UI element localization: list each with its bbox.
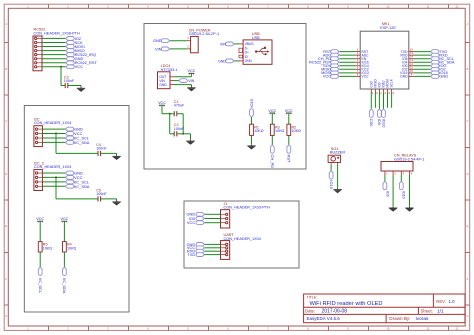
svg-text:E: E [467, 224, 469, 228]
svg-text:VCC: VCC [323, 74, 331, 79]
svg-text:ESP-12E: ESP-12E [380, 26, 396, 30]
svg-text:VCC: VCC [362, 75, 370, 79]
svg-text:D: D [5, 172, 7, 176]
svg-text:GND: GND [439, 74, 448, 79]
svg-text:CON_HEADER_1X04: CON_HEADER_1X04 [34, 121, 71, 125]
svg-text:VCC: VCC [158, 101, 166, 105]
svg-text:C: C [5, 119, 7, 123]
svg-text:REV:: REV: [436, 299, 446, 304]
svg-text:100nF: 100nF [64, 79, 75, 83]
svg-text:GSD19-2.54-4P-1: GSD19-2.54-4P-1 [394, 157, 424, 161]
svg-text:2017-06-08: 2017-06-08 [322, 308, 348, 314]
svg-text:Sheet:: Sheet: [421, 308, 433, 313]
svg-text:10KΩ: 10KΩ [43, 246, 53, 250]
svg-text:100nF: 100nF [174, 127, 185, 131]
svg-text:10KΩ: 10KΩ [254, 129, 264, 133]
svg-text:G: G [5, 314, 7, 318]
svg-text:B: B [467, 67, 469, 71]
svg-text:100nF: 100nF [96, 192, 107, 196]
svg-text:VCC: VCC [187, 220, 195, 225]
svg-text:IIC_SDA: IIC_SDA [74, 184, 90, 189]
svg-text:VCC: VCC [285, 109, 293, 113]
svg-text:VIN: VIN [155, 46, 162, 51]
svg-text:IIC_SDA: IIC_SDA [62, 278, 67, 294]
svg-text:Drawn By:: Drawn By: [389, 316, 410, 321]
svg-text:VCC: VCC [36, 217, 44, 221]
svg-text:IIC_SDA: IIC_SDA [74, 140, 90, 145]
svg-text:TITLE:: TITLE: [307, 295, 318, 299]
svg-text:IO10: IO10 [381, 119, 386, 128]
svg-text:IO10: IO10 [402, 191, 406, 199]
svg-text:GND: GND [159, 83, 167, 87]
svg-text:TXD: TXD [187, 252, 195, 257]
svg-text:C: C [467, 119, 469, 123]
svg-text:IO15: IO15 [329, 180, 334, 189]
svg-text:1.0: 1.0 [449, 299, 456, 304]
svg-text:VIN: VIN [188, 79, 194, 83]
svg-text:VCC: VCC [188, 69, 196, 73]
svg-text:1/1: 1/1 [437, 308, 444, 314]
svg-text:G: G [466, 314, 468, 318]
svg-text:A: A [467, 22, 469, 26]
svg-text:10KΩ: 10KΩ [275, 129, 285, 133]
svg-text:RST: RST [287, 155, 292, 164]
svg-text:470uF: 470uF [174, 103, 185, 107]
svg-text:GND: GND [245, 59, 253, 63]
svg-text:HT7333-1: HT7333-1 [161, 68, 178, 72]
svg-text:IIC_SCL: IIC_SCL [38, 278, 43, 294]
svg-text:B: B [5, 67, 7, 71]
svg-text:IO15: IO15 [249, 98, 254, 107]
svg-text:VCC: VCC [61, 217, 69, 221]
svg-text:GSD19-2.54-2P-1: GSD19-2.54-2P-1 [189, 32, 219, 36]
svg-text:CS0: CS0 [369, 119, 374, 128]
svg-text:WiFi RFID reader with OLED: WiFi RFID reader with OLED [310, 301, 383, 307]
svg-text:CON_HEADER_1X04: CON_HEADER_1X04 [34, 165, 71, 169]
svg-text:EasyEDA V4.5.6: EasyEDA V4.5.6 [307, 316, 341, 321]
svg-text:IO9: IO9 [385, 191, 389, 197]
svg-text:USB: USB [252, 36, 260, 40]
svg-text:VCC: VCC [75, 64, 83, 69]
svg-text:CON_HEADER_1X03-PTH: CON_HEADER_1X03-PTH [224, 206, 270, 210]
svg-text:CH_PD: CH_PD [270, 155, 275, 169]
svg-text:10KΩ: 10KΩ [292, 129, 302, 133]
svg-text:GND: GND [218, 59, 226, 63]
svg-text:BUZZER: BUZZER [330, 151, 345, 155]
svg-text:E: E [5, 224, 7, 228]
svg-text:VIN: VIN [220, 42, 226, 46]
svg-text:D: D [467, 172, 469, 176]
svg-text:CON_HEADER_1X08-PTH: CON_HEADER_1X08-PTH [34, 32, 80, 36]
svg-text:10KΩ: 10KΩ [67, 246, 77, 250]
svg-text:100nF: 100nF [96, 147, 107, 151]
svg-text:GND: GND [153, 38, 162, 43]
svg-text:A: A [5, 22, 7, 26]
svg-text:GND: GND [400, 75, 408, 79]
svg-text:ivoras: ivoras [416, 316, 429, 322]
svg-text:VCC: VCC [268, 109, 276, 113]
svg-text:SCLK: SCLK [390, 78, 394, 87]
svg-text:Date:: Date: [305, 308, 315, 313]
